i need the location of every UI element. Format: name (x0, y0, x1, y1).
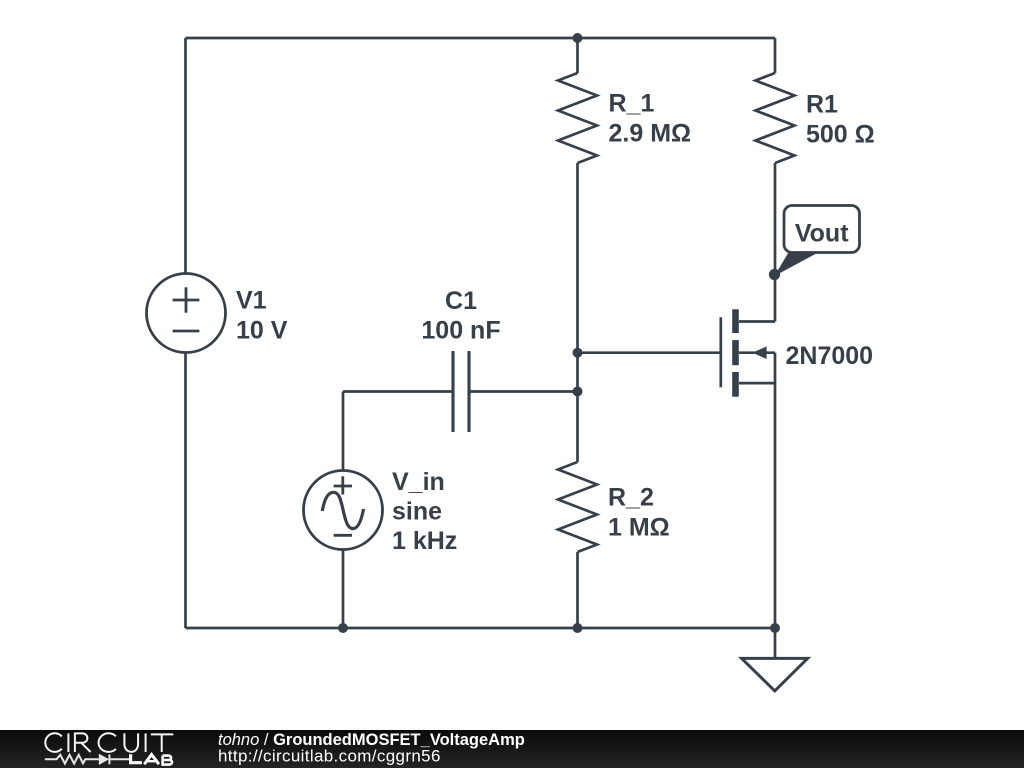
svg-text:1 MΩ: 1 MΩ (608, 514, 670, 542)
svg-text:500 Ω: 500 Ω (806, 121, 875, 149)
svg-text:2N7000: 2N7000 (786, 342, 874, 370)
svg-text:http://circuitlab.com/cggrn56: http://circuitlab.com/cggrn56 (218, 747, 441, 766)
svg-text:R_2: R_2 (608, 484, 654, 512)
svg-text:2.9 MΩ: 2.9 MΩ (609, 120, 692, 148)
svg-text:V1: V1 (236, 287, 267, 315)
svg-text:10 V: 10 V (236, 317, 288, 345)
svg-text:R1: R1 (806, 91, 838, 119)
svg-text:Vout: Vout (795, 220, 849, 248)
svg-text:100 nF: 100 nF (421, 317, 500, 345)
svg-text:1 kHz: 1 kHz (392, 527, 457, 555)
svg-text:C1: C1 (445, 287, 477, 315)
svg-text:R_1: R_1 (609, 90, 655, 118)
svg-text:V_in: V_in (392, 468, 445, 496)
svg-text:sine: sine (392, 498, 442, 526)
